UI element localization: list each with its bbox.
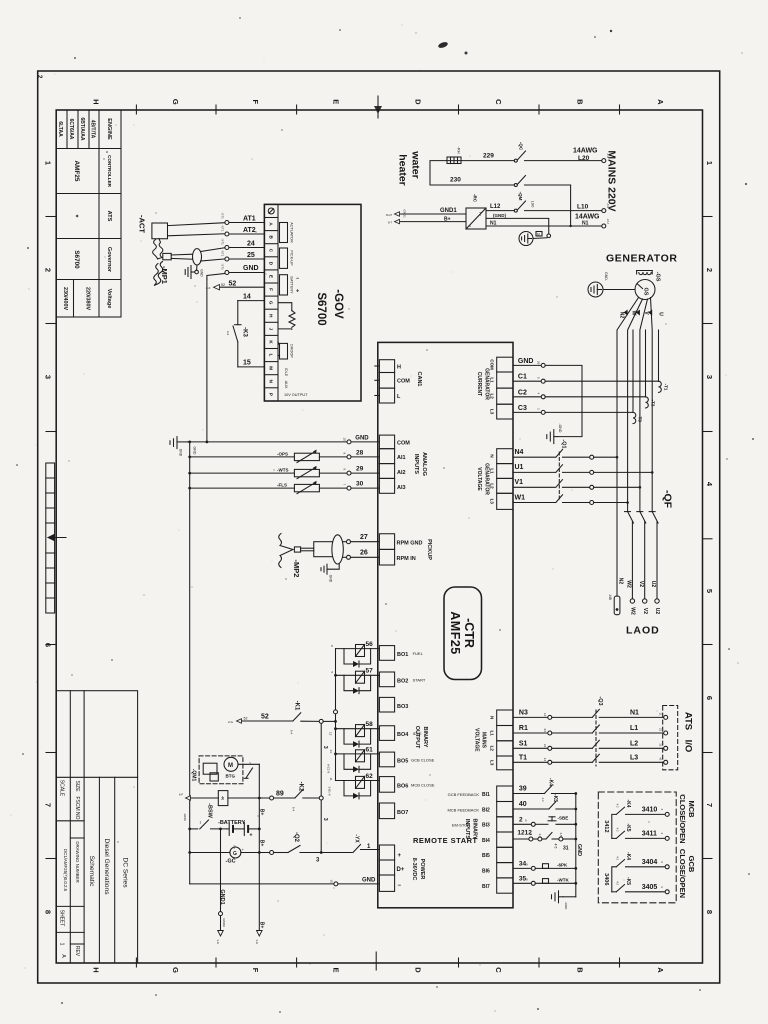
svg-text:10: 10 [330,880,334,884]
svg-text:1: 1 [705,161,714,165]
svg-text:PICKUP: PICKUP [426,539,432,560]
svg-text:MAINS: MAINS [481,732,487,749]
svg-text:-Q1: -Q1 [561,439,567,448]
relay K2 output 57 [336,671,380,694]
svg-text:G: G [171,99,180,105]
screw terminal [268,208,274,214]
svg-text:6CT6/AA: 6CT6/AA [68,119,74,140]
svg-text:-K2: -K2 [298,782,304,792]
svg-text:-WTS: -WTS [277,468,289,473]
wire GND [207,271,265,280]
svg-text:-6PK: -6PK [557,862,568,867]
svg-text:B: B [576,99,585,105]
svg-text:ATS: ATS [106,211,112,222]
svg-text:L20: L20 [578,155,590,162]
svg-text:1: 1 [59,943,65,946]
svg-text:GND1: GND1 [440,208,457,214]
svg-text:AT2: AT2 [243,227,256,234]
svg-text:B: B [576,967,585,973]
scan blemishes [437,41,448,49]
wire 3 vertical [319,723,323,852]
svg-text:AI1: AI1 [397,455,406,461]
svg-text:GENERATOR: GENERATOR [606,253,678,265]
svg-text:6BT/A/AA: 6BT/A/AA [79,117,85,140]
B+ drop arrow [257,931,263,937]
svg-text:12: 12 [329,732,333,736]
svg-text:B+: B+ [233,846,237,850]
svg-text:BI6: BI6 [482,869,490,875]
svg-text:BTG: BTG [226,774,236,779]
pickup cells [379,534,394,565]
SECTION: engintable [56,110,121,317]
svg-text:F: F [251,968,260,973]
mains voltage cells [497,710,513,770]
svg-text:R1: R1 [519,725,528,732]
svg-text:CAN1: CAN1 [416,372,422,387]
sensor OPS [188,450,379,463]
svg-text:GND: GND [362,877,376,883]
svg-text:GND: GND [355,435,369,441]
wire to controller plus [270,845,380,855]
svg-text:4-5: 4-5 [554,844,558,849]
svg-text:2-G: 2-G [228,720,234,724]
svg-text:-YX: -YX [354,834,360,843]
svg-text:H: H [397,365,401,371]
svg-text:-QF: -QF [662,490,674,509]
svg-text:2: 2 [705,268,714,272]
wire 229 [461,160,514,162]
svg-text:Diesel Generations: Diesel Generations [103,838,110,895]
zone letters bottom [92,967,665,973]
svg-text:PICK-UP: PICK-UP [290,250,294,266]
load terminals [630,599,659,603]
wire C3 [513,410,633,414]
title block [56,691,137,963]
svg-text:-QM1: -QM1 [191,769,197,782]
svg-text:C1: C1 [518,374,527,381]
svg-text:L3: L3 [490,409,495,415]
generator voltage wires N4 [513,450,618,460]
svg-text:CLOSE/OPEN: CLOSE/OPEN [678,794,687,843]
svg-text:AUX: AUX [284,381,288,389]
svg-text:4-2: 4-2 [616,803,620,807]
BI1 row [513,786,576,794]
svg-text:-K5: -K5 [625,823,631,831]
svg-text:2: 2 [44,268,53,272]
svg-text:F: F [269,288,274,291]
svg-text:25: 25 [247,252,255,259]
svg-text:GND: GND [576,844,582,856]
svg-text:L12: L12 [490,204,501,210]
svg-text:44: 44 [543,758,547,762]
svg-text:BI4: BI4 [482,838,490,844]
svg-text:CURRENT: CURRENT [476,372,482,396]
starter motor QM1 [199,756,243,784]
svg-text:BI2: BI2 [482,807,490,813]
relay K3 output 58 [336,725,380,748]
svg-text:4-2: 4-2 [541,797,545,801]
svg-text:-GC: -GC [226,859,236,865]
svg-text:D+: D+ [397,867,405,873]
svg-text:L10: L10 [577,204,589,211]
svg-text:1: 1 [200,821,202,825]
svg-text:-XT1: -XT1 [221,263,225,270]
svg-text:229: 229 [483,153,494,160]
margin terminal strip left [46,463,55,613]
wire 24 [225,246,265,250]
svg-text:DRAWING NUMBER: DRAWING NUMBER [75,841,80,882]
battery switch BSW [188,820,226,830]
binary output cells [379,646,394,819]
svg-text:L90: L90 [531,201,536,208]
bottom gnd wire [190,882,380,886]
svg-text:-XT1: -XT1 [221,250,225,257]
wire V1 [513,480,641,490]
svg-text:VOLTAGE: VOLTAGE [476,467,482,491]
svg-text:Governor: Governor [106,247,112,273]
svg-text:AMF25: AMF25 [73,161,80,182]
svg-text:W2: W2 [626,580,632,588]
svg-text:AI3: AI3 [397,485,406,491]
phase fan from GS [617,298,652,512]
svg-text:-Q2: -Q2 [293,832,299,843]
svg-text:30: 30 [356,481,364,488]
svg-text:24: 24 [543,729,547,733]
wire B+ into RC [395,219,467,223]
earth circle [588,282,635,297]
SECTION: edgelabels [36,75,714,973]
svg-text:CLOSE/OPEN: CLOSE/OPEN [678,849,687,898]
svg-text:D: D [414,967,423,973]
svg-text:U2: U2 [654,608,660,615]
charge generator GC [188,847,269,858]
svg-text:M: M [269,366,274,370]
svg-text:230: 230 [450,177,461,184]
relay bus [334,649,338,781]
svg-text:-Q3: -Q3 [597,696,603,705]
svg-text:5: 5 [705,589,714,593]
wire 230 left link [430,161,514,185]
earth at current COM [545,365,582,443]
svg-text:89: 89 [276,791,284,798]
svg-text:58: 58 [366,721,374,728]
svg-text:-MP1: -MP1 [160,266,169,284]
wire 15 [238,366,265,368]
svg-text:AI2: AI2 [397,470,406,476]
svg-text:GND-: GND- [604,272,608,282]
svg-text:BO7: BO7 [397,810,408,816]
analog cells [379,435,394,493]
svg-text:29: 29 [356,466,364,473]
SECTION: leftcircuits [170,279,379,944]
svg-text:D: D [414,99,423,105]
svg-text:-XT1: -XT1 [221,225,225,232]
svg-text:3: 3 [44,375,53,379]
svg-text:B+: B+ [259,922,265,929]
sensor WTS [188,466,379,479]
svg-text:N2: N2 [618,578,624,585]
neutral link NB [614,457,620,614]
wire AT1 [225,221,265,225]
svg-text:-T2: -T2 [651,400,656,407]
svg-text:52: 52 [221,283,225,287]
svg-text:W: W [631,311,637,316]
svg-text:-K5: -K5 [625,877,631,885]
svg-text:U2: U2 [650,581,656,588]
svg-text:8-36VDC: 8-36VDC [411,858,417,881]
svg-text:AMF25: AMF25 [448,611,462,654]
CT T1 [659,381,662,392]
contact K3 [233,301,241,367]
svg-text:COM: COM [397,441,410,447]
svg-text:BI3: BI3 [482,823,490,829]
svg-text:24: 24 [247,241,255,248]
svg-text:L3: L3 [630,754,638,761]
Q3 gang [595,710,597,766]
svg-text:*: * [72,215,79,218]
svg-text:BI5: BI5 [482,853,490,859]
actuator horn [168,223,225,236]
svg-text:IDLE: IDLE [284,368,288,377]
svg-text:E: E [269,275,274,278]
flex conduit lower squiggle [154,262,163,286]
svg-text:Voltage: Voltage [106,289,112,309]
actuator box [280,223,288,243]
svg-text:BO1: BO1 [397,652,408,658]
strip letters [269,222,274,396]
wire 14 [238,300,265,302]
svg-text:H: H [92,967,101,972]
svg-text:Schematic: Schematic [88,856,95,887]
svg-text:GND: GND [243,265,259,272]
svg-text:P: P [269,393,274,396]
svg-text:-GND: -GND [564,902,568,910]
svg-text:G: G [171,967,180,973]
svg-text:-XT1: -XT1 [221,212,225,219]
svg-text:(GND): (GND) [493,213,506,218]
svg-text:3405: 3405 [642,884,658,891]
svg-text:RPM IN: RPM IN [397,556,416,562]
svg-text:ATS: ATS [683,712,694,730]
svg-text:INPUTS: INPUTS [413,454,419,475]
relay K4 output 61 [336,750,380,773]
svg-text:10: 10 [343,438,347,442]
SECTION: titleblock [56,691,137,963]
svg-text:3411: 3411 [642,830,657,837]
svg-text:GND1: GND1 [403,210,407,219]
wire 52 K1 [237,713,336,724]
svg-text:GND: GND [518,358,534,365]
svg-text:I/O: I/O [683,740,694,753]
svg-text:8: 8 [44,910,53,914]
svg-text:MCB FEEDBACK: MCB FEEDBACK [447,807,479,812]
svg-text:VOLTAGE: VOLTAGE [474,728,480,752]
BI2 row [513,792,577,810]
svg-text:-NB: -NB [608,594,612,601]
svg-text:MCB CLOSE: MCB CLOSE [411,783,435,788]
battery symbol [227,822,260,835]
wire N1 [486,225,602,227]
svg-text:L3: L3 [490,760,495,766]
svg-text:GENARATOR: GENARATOR [484,463,490,495]
svg-text:52: 52 [244,717,248,721]
centre mark left [47,534,66,542]
svg-text:57: 57 [366,668,374,675]
svg-text:28: 28 [356,449,364,456]
svg-text:A: A [656,99,665,105]
svg-text:4-2: 4-2 [616,856,620,860]
svg-text:N1: N1 [490,220,497,226]
svg-text:4-2: 4-2 [616,827,620,831]
svg-text:26: 26 [537,361,541,365]
svg-text:-GS: -GS [655,272,661,282]
svg-text:7: 7 [44,803,53,807]
svg-text:14AWG: 14AWG [573,148,598,155]
svg-text:E: E [331,967,340,972]
svg-text:LAOD: LAOD [626,625,660,637]
engine data table [56,110,121,317]
svg-text:W2: W2 [630,607,636,615]
svg-text:GND: GND [200,269,204,277]
svg-text:-BSW: -BSW [207,803,213,818]
wire 89 with K box [186,790,320,806]
mains R1 [513,725,668,735]
svg-text:11: 11 [329,778,333,781]
svg-text:39: 39 [519,786,527,793]
svg-text:11: 11 [659,713,663,716]
CT T3 [633,412,636,423]
svg-text:GCB FEEDBACK: GCB FEEDBACK [448,792,480,797]
wire gnd to COM [188,279,380,444]
svg-text:-RH: -RH [457,146,462,153]
svg-text:4-9: 4-9 [538,834,542,839]
svg-text:-ACT: -ACT [138,215,147,233]
SECTION: heater [386,142,618,246]
SECTION: generator [513,253,678,637]
phase arrows [624,310,628,316]
svg-text:DC Series: DC Series [122,857,129,888]
svg-text:heater: heater [397,154,409,186]
svg-text:-K5: -K5 [552,794,558,802]
svg-text:DC1/AMF25(*)0.0.2.5: DC1/AMF25(*)0.0.2.5 [63,849,68,892]
GND1 drop [218,828,224,937]
svg-text:BO3: BO3 [397,704,408,710]
wire C1 [513,379,659,383]
svg-text:INPUTS: INPUTS [464,819,470,840]
svg-text:8: 8 [705,910,714,914]
svg-text:8-G7: 8-G7 [386,213,393,217]
svg-text:3-B1-6: 3-B1-6 [328,787,332,796]
battery bus B+ [258,764,261,930]
svg-text:AT1: AT1 [243,216,256,223]
svg-text:−: − [296,276,299,282]
wire 52 arrow [214,285,265,290]
wire L12 [486,201,602,212]
svg-text:-T1: -T1 [664,384,669,391]
svg-text:BO4: BO4 [397,732,409,738]
generator GS circle [635,280,655,300]
SECTION: frame [38,71,720,983]
svg-text:SIZE: SIZE [74,780,80,792]
pin tags [221,212,225,270]
pickup MP1 [163,248,225,265]
svg-text:-WTK: -WTK [557,877,569,882]
svg-text:7: 7 [705,803,714,807]
svg-text:BINARY: BINARY [472,819,478,840]
svg-text:GND: GND [192,447,196,455]
contact QM [514,176,570,227]
svg-text:10V OUTPUT: 10V OUTPUT [284,393,308,397]
SECTION: gov [138,204,362,401]
svg-text:-GOV: -GOV [332,289,344,319]
SECTION: amf [375,342,513,907]
svg-text:N2: N2 [619,312,625,319]
svg-text:1-9: 1-9 [255,939,259,944]
relay K1 output 56 [336,645,380,668]
svg-text:N: N [490,454,495,457]
svg-text:-XT1: -XT1 [221,238,225,245]
svg-text:-GND: -GND [183,813,187,821]
QM1 contact [238,764,259,778]
svg-text:-QC: -QC [519,142,524,151]
MP2 ground [321,564,339,574]
svg-text:GENARATOR: GENARATOR [484,368,490,400]
svg-text:S1: S1 [519,740,528,747]
ground symbol left [170,437,188,449]
svg-text:E: E [331,99,340,104]
svg-text:REV: REV [74,946,80,957]
svg-text:1-9: 1-9 [216,939,220,944]
svg-text:B+: B+ [259,840,265,847]
CT returns [633,330,659,412]
svg-text:-FU: -FU [606,203,610,208]
svg-text:S6700: S6700 [315,292,327,325]
gen current cells [497,357,513,419]
svg-text:220/380V: 220/380V [85,287,91,310]
svg-text:V2: V2 [642,608,648,614]
svg-text:+: + [250,833,253,839]
svg-text:L: L [269,354,274,357]
svg-text:N3: N3 [519,709,528,716]
resistor RH [447,157,461,164]
svg-text:-K3: -K3 [242,327,248,337]
svg-text:FUEL: FUEL [413,651,424,656]
svg-text:-CTR: -CTR [462,618,476,648]
sensor FLS [188,481,379,494]
svg-text:MCB: MCB [687,800,696,818]
svg-text:61: 61 [366,746,374,753]
svg-text:GS: GS [643,288,649,296]
svg-text:N4: N4 [515,449,524,456]
svg-text:14: 14 [243,294,251,301]
svg-text:4B/T/TA: 4B/T/TA [90,120,96,139]
zone letters top [92,99,665,105]
wire AT2 [225,232,265,236]
svg-text:3412: 3412 [603,820,609,832]
wire U1 [513,465,654,475]
zone numbers right [705,161,714,914]
wire gen GND [513,363,545,367]
contact QC [514,151,601,162]
svg-text:1: 1 [44,161,53,165]
mains S1 [513,740,668,750]
binary input cells [497,786,513,893]
svg-text:H: H [92,99,101,104]
row 3404 [612,860,669,892]
SECTION: rightcircuits [513,358,696,910]
svg-text:GCB CLOSE: GCB CLOSE [411,758,435,763]
pickup MP2 [279,534,380,568]
